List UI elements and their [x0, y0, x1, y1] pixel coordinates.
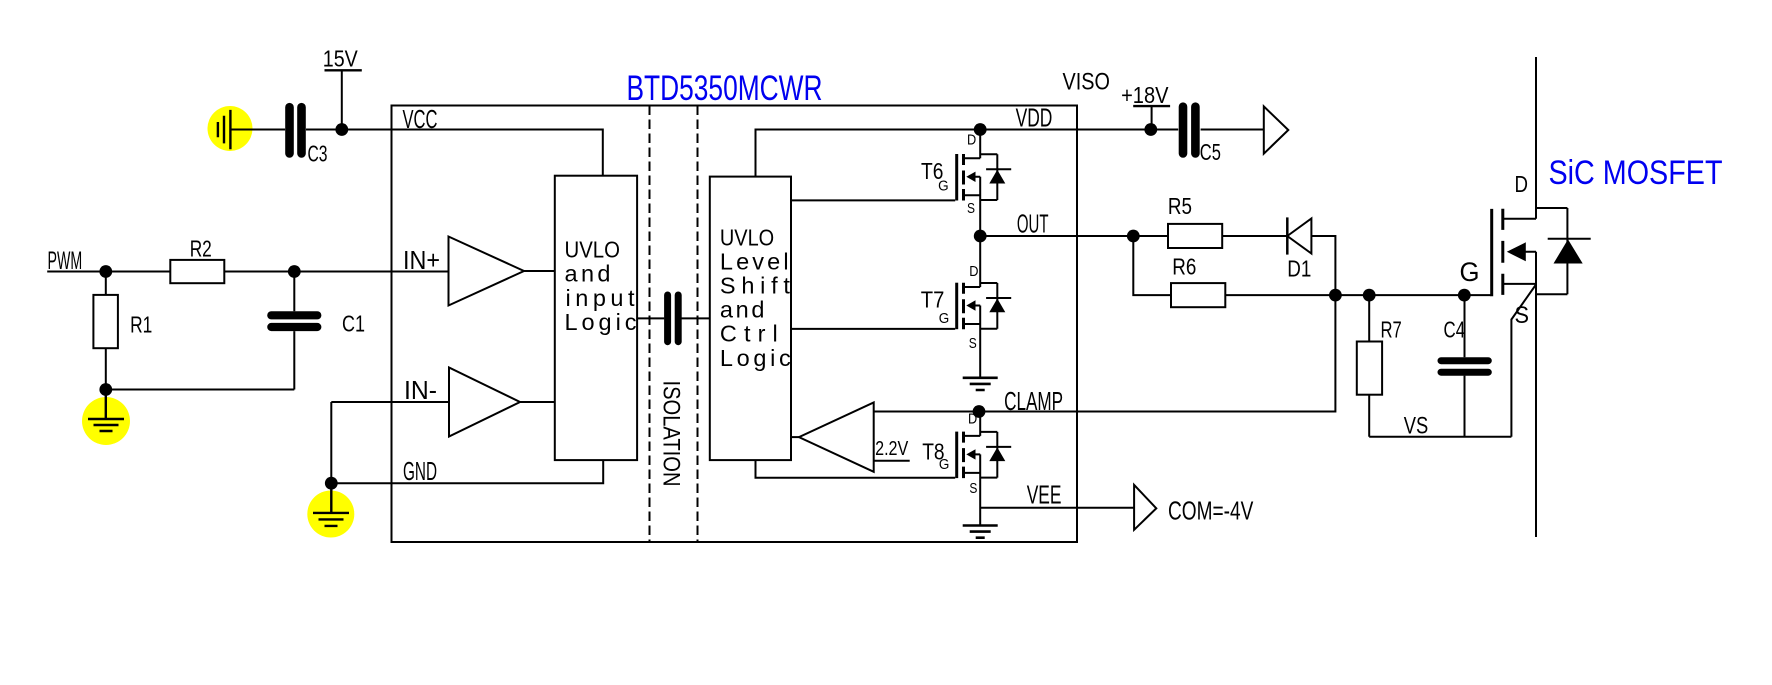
svg-text:G: G [939, 310, 950, 327]
wire D1 to gate node [1311, 236, 1335, 295]
wire T6 gate [791, 199, 955, 201]
svg-text:S: S [969, 480, 977, 497]
wire OUT to R5/R6 [1077, 235, 1168, 237]
diode D1 [1287, 217, 1311, 281]
wire IN- input [331, 401, 449, 403]
comparator 2.2V [791, 403, 910, 472]
svg-text:2.2V: 2.2V [875, 438, 909, 460]
svg-text:COM=-4V: COM=-4V [1168, 496, 1254, 526]
connector VISO output [1264, 106, 1289, 153]
resistor R2 [170, 235, 224, 283]
wire kelvin source lead [1511, 285, 1536, 437]
node GND junction [325, 477, 338, 490]
wire T8 gate [756, 460, 956, 478]
svg-text:VEE: VEE [1027, 480, 1062, 510]
isolation barrier dashed lines [650, 106, 698, 543]
svg-text:UVLO: UVLO [720, 224, 774, 250]
svg-text:R7: R7 [1381, 317, 1402, 343]
block UVLO Level Shift and Ctrl Logic [710, 177, 791, 461]
svg-text:S: S [967, 200, 975, 217]
buffer IN+ [449, 237, 525, 306]
wire T7 gate [791, 328, 955, 330]
svg-text:SiC MOSFET: SiC MOSFET [1549, 154, 1723, 192]
wire VDD from logic block [756, 130, 1078, 178]
power flag 15V [323, 46, 362, 72]
svg-text:BTD5350MCWR: BTD5350MCWR [627, 69, 823, 108]
svg-text:Level: Level [720, 248, 789, 274]
svg-text:GND: GND [403, 456, 437, 486]
svg-text:T7: T7 [921, 287, 945, 313]
wire VDD rail to C5 [1077, 129, 1178, 131]
wire ground to C3 [232, 129, 286, 131]
svg-text:D: D [1515, 171, 1529, 197]
ground at T7 source [963, 378, 998, 390]
svg-text:G: G [1460, 257, 1480, 287]
svg-text:OUT: OUT [1017, 209, 1049, 239]
IC outline BTD5350MCWR [392, 106, 1078, 543]
wire VEE [980, 507, 1134, 509]
ground earth at R1 bottom (yellow highlight) [82, 390, 130, 446]
wire VCC to logic block [392, 130, 603, 176]
svg-text:S: S [969, 335, 977, 352]
wire VS [1369, 436, 1511, 438]
svg-text:Logic: Logic [565, 309, 637, 335]
resistor R7 [1357, 295, 1402, 437]
capacitor C5 [1183, 107, 1221, 165]
wire C1 bottom to R1 bottom [106, 389, 294, 391]
svg-text:VS: VS [1404, 413, 1429, 440]
ground at T8 source [963, 526, 998, 538]
svg-text:G: G [939, 456, 950, 473]
node C1 junction [288, 265, 301, 278]
node VCC junction [335, 123, 348, 136]
svg-text:G: G [938, 178, 949, 195]
svg-text:UVLO: UVLO [565, 237, 621, 263]
wire R2 to IN+ [224, 271, 448, 273]
svg-text:R5: R5 [1168, 193, 1192, 219]
node gate rail junction 2 [1363, 289, 1376, 302]
wire IN- to GND node [330, 402, 332, 483]
wire buffer IN- output [520, 401, 555, 403]
node OUT split junction [1127, 230, 1140, 243]
resistor R5 [1168, 193, 1222, 248]
svg-text:+18V: +18V [1121, 82, 1169, 108]
svg-text:and: and [720, 297, 765, 323]
svg-text:IN+: IN+ [403, 245, 440, 275]
svg-text:IN-: IN- [404, 375, 437, 405]
svg-text:C3: C3 [308, 141, 328, 167]
svg-text:VISO: VISO [1063, 69, 1110, 96]
node VDD junction [974, 123, 987, 136]
ground earth left-pointing at VCC input (yellow highlight) [208, 106, 253, 151]
transistor SiC MOSFET [1492, 57, 1591, 537]
wire logic block to isolation cap [637, 317, 710, 319]
transistor T6 [921, 130, 1011, 237]
svg-text:C1: C1 [342, 311, 365, 337]
node OUT junction [974, 230, 987, 243]
svg-text:D: D [968, 411, 977, 428]
svg-text:R2: R2 [190, 235, 212, 261]
wire CLAMP [874, 411, 1077, 413]
svg-text:D: D [969, 263, 978, 280]
wire C3 to VCC pin [306, 129, 392, 131]
wire 15V to VCC node [341, 70, 343, 129]
svg-text:ISOLATION: ISOLATION [658, 381, 685, 487]
wire PWM input [47, 271, 170, 273]
wire CLAMP to gate node [1077, 295, 1335, 411]
wire buffer IN+ output [524, 270, 555, 272]
wire C5 to connector [1201, 129, 1264, 131]
node PWM junction [99, 265, 112, 278]
resistor R6 [1171, 253, 1225, 307]
capacitor C4 [1441, 295, 1488, 437]
transistor T8 [922, 411, 1011, 526]
wire R5 to D1 [1222, 235, 1287, 237]
svg-text:C5: C5 [1200, 139, 1221, 165]
transistor T7 [921, 236, 1011, 378]
svg-text:D1: D1 [1287, 256, 1311, 282]
wire +18V to VDD rail [1151, 106, 1153, 129]
node gate rail junction 3 [1458, 289, 1471, 302]
node R1 bottom junction [99, 383, 112, 396]
svg-text:R6: R6 [1172, 253, 1196, 279]
block UVLO and input Logic [555, 176, 637, 460]
capacitor C1 [271, 272, 365, 390]
svg-text:15V: 15V [323, 46, 359, 72]
wire GND to logic block [331, 460, 603, 483]
svg-text:D: D [967, 132, 976, 149]
resistor R1 [93, 272, 152, 390]
ground earth at GND pin (yellow highlight) [307, 483, 354, 537]
wire OUT [980, 235, 1077, 237]
node +18V junction [1144, 123, 1157, 136]
svg-text:S: S [1515, 302, 1530, 329]
capacitor isolation coupling [668, 295, 679, 342]
connector COM [1134, 485, 1156, 530]
svg-text:VDD: VDD [1016, 103, 1053, 133]
wire R6 to gate rail [1225, 294, 1490, 296]
svg-text:C4: C4 [1444, 317, 1466, 343]
svg-text:R1: R1 [130, 311, 152, 337]
wire junction down to R6 [1133, 236, 1171, 295]
svg-text:and: and [565, 261, 611, 287]
node gate rail junction 1 [1329, 289, 1342, 302]
power flag +18V [1121, 82, 1170, 108]
svg-text:Logic: Logic [720, 345, 791, 371]
node CLAMP junction [973, 405, 986, 418]
capacitor C3 [290, 107, 328, 166]
buffer IN- [449, 368, 520, 437]
